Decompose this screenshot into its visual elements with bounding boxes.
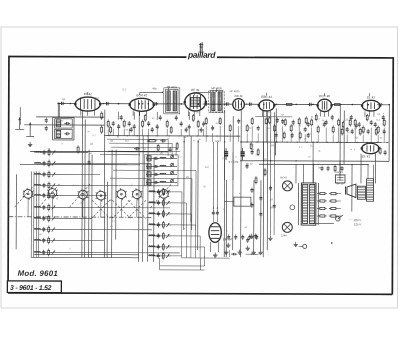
svg-text:m: m: [183, 228, 185, 230]
svg-text:Rx 30: Rx 30: [246, 163, 253, 166]
svg-text:25: 25: [344, 118, 348, 122]
svg-text:50k: 50k: [215, 139, 220, 143]
svg-text:ECH 42: ECH 42: [136, 93, 147, 97]
svg-text:25: 25: [174, 147, 178, 151]
svg-text:125 V: 125 V: [354, 222, 362, 226]
svg-text:0.1: 0.1: [376, 118, 380, 122]
svg-text:0.1: 0.1: [310, 143, 314, 147]
svg-text:0.1: 0.1: [205, 165, 209, 169]
svg-text:m: m: [324, 116, 326, 118]
svg-text:AZ 41: AZ 41: [279, 175, 287, 179]
svg-text:EL 41: EL 41: [362, 154, 370, 158]
svg-text:→: →: [349, 217, 352, 221]
svg-text:paillard: paillard: [187, 50, 216, 60]
svg-text:1244: 1244: [281, 233, 287, 237]
svg-text:0.1: 0.1: [125, 139, 129, 143]
svg-text:MF 462b: MF 462b: [211, 86, 222, 90]
svg-text:m: m: [73, 185, 75, 187]
svg-text:EF 41: EF 41: [191, 88, 199, 92]
svg-text:m: m: [193, 140, 195, 142]
svg-text:1M: 1M: [377, 114, 380, 116]
svg-text:m: m: [185, 137, 187, 139]
svg-text:m: m: [350, 149, 352, 151]
svg-text:1M: 1M: [215, 123, 218, 125]
svg-text:MF 462b: MF 462b: [229, 89, 240, 93]
svg-text:1M: 1M: [281, 114, 284, 116]
svg-text:46p: 46p: [152, 86, 157, 90]
svg-text:0.1: 0.1: [122, 87, 126, 91]
svg-text:Mod. 9601: Mod. 9601: [18, 269, 58, 278]
svg-text:AZ 41: AZ 41: [335, 170, 343, 174]
svg-text:m: m: [168, 138, 170, 140]
svg-text:EB 41: EB 41: [235, 94, 244, 98]
svg-text:4 × EM4: 4 × EM4: [229, 160, 239, 164]
svg-text:1M: 1M: [263, 159, 266, 161]
svg-text:20: 20: [185, 175, 189, 179]
svg-text:EL 41: EL 41: [367, 95, 375, 99]
svg-text:0.5: 0.5: [250, 143, 254, 147]
svg-text:HP 19: HP 19: [337, 183, 344, 186]
svg-text:1M: 1M: [222, 158, 225, 160]
svg-text:3 - 9601 - 1.52: 3 - 9601 - 1.52: [10, 285, 52, 292]
svg-text:0.1: 0.1: [95, 96, 99, 100]
